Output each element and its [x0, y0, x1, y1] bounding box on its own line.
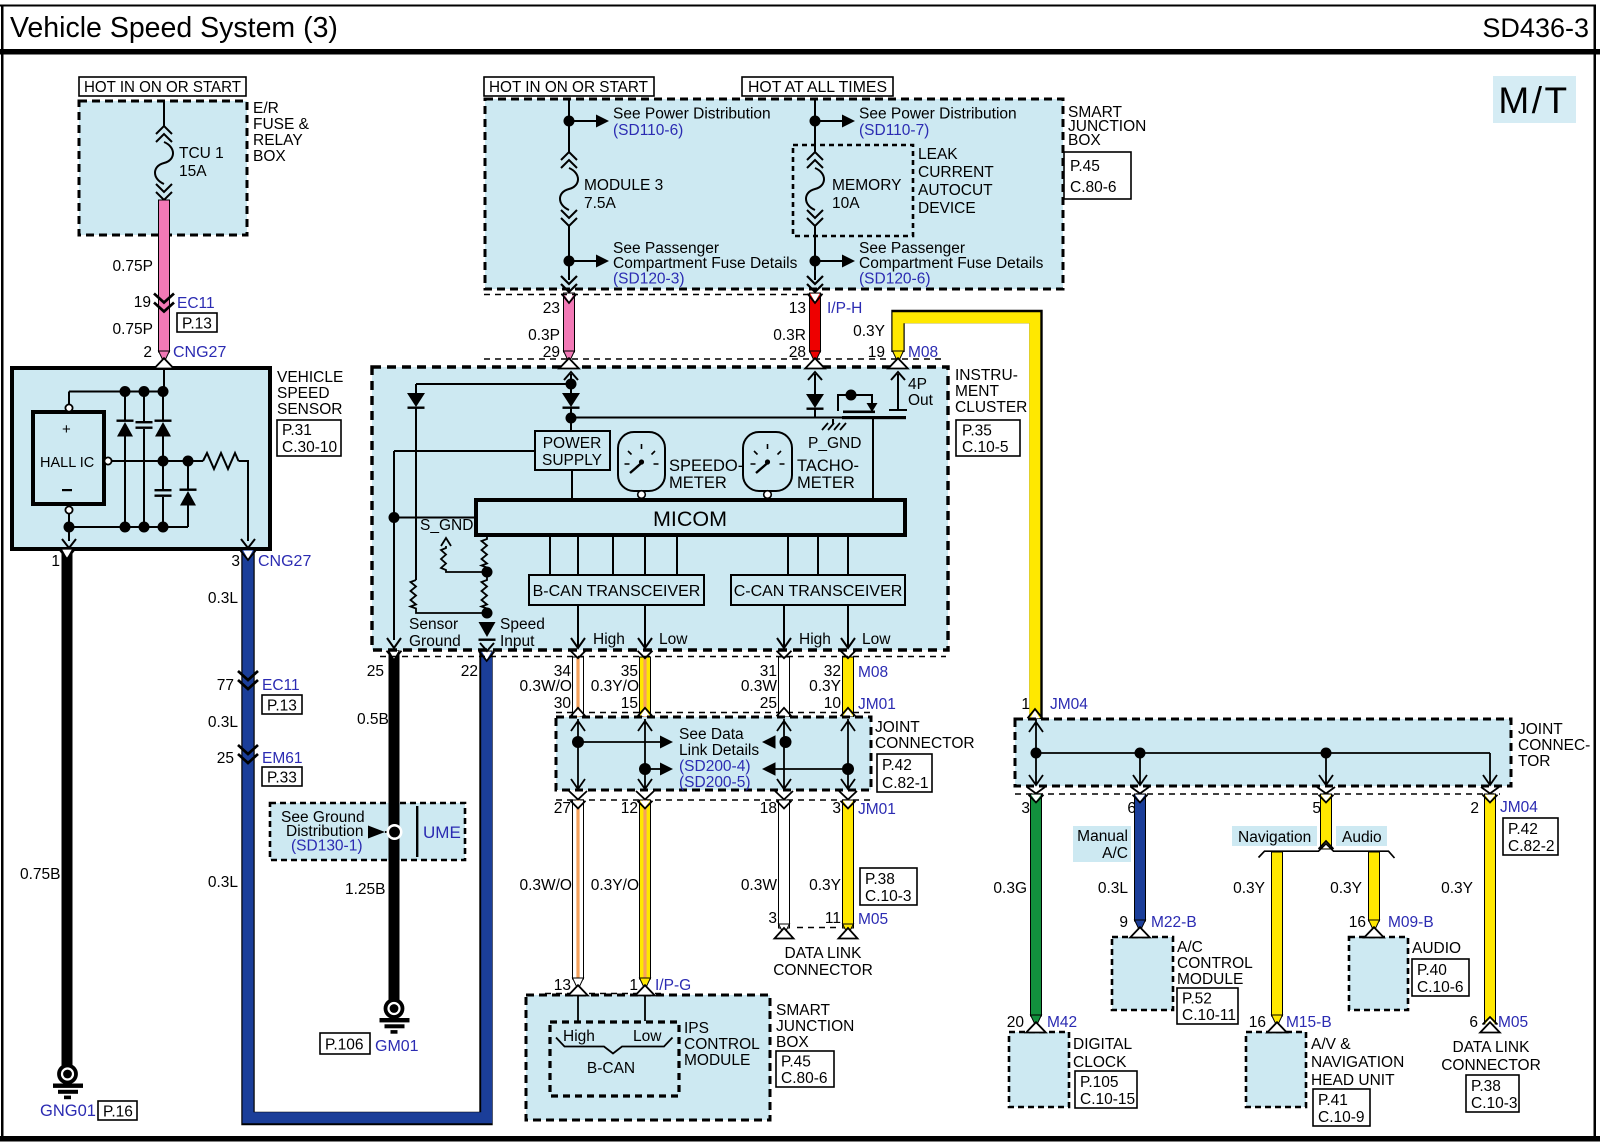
svg-text:0.3G: 0.3G — [993, 880, 1027, 897]
svg-text:18: 18 — [760, 800, 777, 817]
JC internal vertical pin lines — [571, 719, 855, 789]
HOT AT ALL TIMES label — [742, 77, 893, 96]
wire 0.3R SJB to cluster — [810, 293, 821, 352]
speed input resistor 2 — [482, 572, 488, 613]
svg-text:CONNECTOR: CONNECTOR — [1441, 1057, 1541, 1074]
svg-text:10A: 10A — [832, 195, 860, 212]
svg-text:RELAY: RELAY — [253, 132, 303, 149]
svg-text:13: 13 — [789, 300, 806, 317]
svg-text:Compartment Fuse Details: Compartment Fuse Details — [859, 255, 1044, 272]
speed input resistor 1 — [482, 535, 488, 572]
wire 0.3Y/O JC to SJB — [636, 791, 654, 979]
svg-text:SPEED: SPEED — [277, 385, 330, 402]
svg-text:(SD110-6): (SD110-6) — [613, 122, 683, 139]
top rail wire — [69, 391, 164, 393]
Navigation label — [1232, 826, 1317, 846]
svg-text:JM01: JM01 — [858, 696, 896, 713]
svg-text:SENSOR: SENSOR — [277, 401, 342, 418]
svg-text:M05: M05 — [858, 911, 888, 928]
svg-text:1: 1 — [629, 977, 638, 994]
M/T badge — [1493, 76, 1576, 123]
svg-text:INSTRU-: INSTRU- — [955, 367, 1018, 384]
svg-text:P.45: P.45 — [1070, 158, 1100, 175]
svg-text:16: 16 — [1249, 1014, 1266, 1031]
svg-text:9: 9 — [1119, 914, 1128, 931]
svg-text:I/P-G: I/P-G — [655, 977, 691, 994]
svg-text:2: 2 — [143, 344, 152, 361]
svg-text:GM01: GM01 — [375, 1038, 419, 1055]
svg-text:M05: M05 — [1498, 1014, 1528, 1031]
wire node to MICOM left — [394, 517, 476, 519]
svg-text:METER: METER — [669, 474, 727, 492]
connector EC11 pin 77 — [238, 671, 258, 689]
wire into fuse TCU1 — [163, 101, 165, 126]
wire fuse to lower node — [568, 226, 570, 280]
see passenger details arrow (left) — [569, 260, 596, 262]
svg-text:1: 1 — [51, 553, 60, 570]
pin3 arrow — [241, 539, 255, 548]
svg-text:C.10-3: C.10-3 — [865, 888, 912, 905]
node dots top rail — [120, 386, 131, 397]
svg-text:0.3R: 0.3R — [773, 327, 806, 344]
svg-text:E/R: E/R — [253, 100, 279, 117]
svg-text:0.3L: 0.3L — [208, 714, 239, 731]
wire 0.3Y stub pin5 — [1317, 787, 1335, 849]
svg-text:P.35: P.35 — [962, 423, 992, 440]
sensor ground pin arrow — [387, 638, 401, 648]
svg-text:A/C: A/C — [1177, 939, 1203, 956]
svg-text:JM04: JM04 — [1500, 799, 1538, 816]
pin1 arrow — [62, 539, 76, 548]
svg-text:0.3W: 0.3W — [741, 877, 778, 894]
fuse MODULE 3 7.5A — [561, 152, 577, 168]
svg-text:TACHO-: TACHO- — [797, 457, 859, 475]
TOPLEFT — [79, 77, 310, 361]
smart junction box (top) — [485, 99, 1063, 289]
svg-text:See Data: See Data — [679, 726, 744, 743]
svg-text:20: 20 — [1007, 1014, 1025, 1031]
connector row M08 bottom dashed line — [380, 656, 946, 658]
svg-text:NAVIGATION: NAVIGATION — [1311, 1054, 1404, 1071]
diode column3 — [162, 392, 164, 422]
node dots bottom rail — [64, 522, 75, 533]
connector tip pin 19 into cluster — [893, 351, 904, 363]
svg-text:CLOCK: CLOCK — [1073, 1054, 1127, 1071]
svg-text:P.45: P.45 — [781, 1054, 811, 1071]
svg-text:CONNECTOR: CONNECTOR — [773, 962, 873, 979]
svg-text:3: 3 — [1021, 800, 1030, 817]
svg-text:AUDIO: AUDIO — [1412, 940, 1461, 957]
IPS control module box — [550, 1022, 679, 1096]
svg-text:CURRENT: CURRENT — [918, 164, 994, 181]
svg-text:P.42: P.42 — [882, 757, 912, 774]
svg-text:Speed: Speed — [500, 616, 545, 633]
svg-text:TOR: TOR — [1518, 753, 1550, 770]
svg-text:C.10-3: C.10-3 — [1471, 1095, 1518, 1112]
svg-text:CNG27: CNG27 — [258, 553, 311, 570]
svg-text:A/V &: A/V & — [1311, 1036, 1351, 1053]
split brace — [1321, 842, 1331, 849]
wire fuse to lower node — [814, 226, 816, 280]
connector tip pin 16 M09-B into audio — [1369, 920, 1380, 932]
hall + terminal — [68, 392, 70, 405]
connector tip pin 2 CNG27 into sensor — [159, 351, 170, 363]
Audio label — [1336, 826, 1387, 846]
svg-text:0.3Y: 0.3Y — [1233, 880, 1265, 897]
svg-text:11: 11 — [825, 910, 841, 927]
svg-text:(SD110-7): (SD110-7) — [859, 122, 929, 139]
svg-text:CONTROL: CONTROL — [1177, 955, 1253, 972]
page left border — [1, 5, 4, 1140]
svg-text:M22-B: M22-B — [1151, 914, 1197, 931]
joint connector JM04 box — [1015, 719, 1511, 786]
svg-text:4P: 4P — [908, 376, 927, 393]
svg-text:C.10-5: C.10-5 — [962, 439, 1009, 456]
svg-text:See Power Distribution: See Power Distribution — [613, 106, 771, 123]
ground leg vertical — [393, 451, 395, 640]
svg-text:C.10-9: C.10-9 — [1318, 1109, 1365, 1126]
svg-text:(SD200-4): (SD200-4) — [679, 758, 751, 775]
MIDBOTTOM — [367, 651, 975, 1120]
svg-text:P.33: P.33 — [267, 770, 297, 787]
svg-text:(SD120-3): (SD120-3) — [613, 271, 685, 288]
svg-text:SUPPLY: SUPPLY — [542, 452, 602, 469]
S_GND arrow + resistor — [441, 538, 451, 546]
page bottom border — [0, 1136, 1600, 1142]
svg-text:10: 10 — [824, 695, 842, 712]
svg-text:C.10-15: C.10-15 — [1080, 1091, 1135, 1108]
svg-text:DEVICE: DEVICE — [918, 200, 976, 217]
svg-text:M42: M42 — [1047, 1014, 1077, 1031]
connector row M05 dashed fragment — [797, 927, 838, 929]
UME ground distribution box — [270, 803, 465, 860]
svg-text:M09-B: M09-B — [1388, 914, 1434, 931]
svg-text:27: 27 — [554, 800, 571, 817]
svg-text:HEAD UNIT: HEAD UNIT — [1311, 1072, 1395, 1089]
svg-text:0.3L: 0.3L — [208, 590, 239, 607]
svg-text:DATA LINK: DATA LINK — [785, 945, 863, 962]
svg-text:(SD120-6): (SD120-6) — [859, 271, 931, 288]
svg-text:P.13: P.13 — [182, 316, 212, 333]
SJB exit chevron right — [807, 276, 823, 292]
svg-text:Audio: Audio — [1342, 829, 1382, 846]
see power distribution arrow (right) — [815, 120, 842, 122]
svg-text:Ground: Ground — [409, 633, 461, 650]
ground GNG01 — [59, 1066, 76, 1083]
capacitor column2 — [143, 392, 145, 422]
svg-text:High: High — [593, 631, 625, 648]
wire 0.3Y cluster pin19 up and over to JM04 — [898, 317, 1036, 720]
svg-text:(SD200-5): (SD200-5) — [679, 774, 751, 791]
mid rail wire — [112, 460, 204, 462]
svg-text:CNG27: CNG27 — [173, 344, 226, 361]
svg-text:LEAK: LEAK — [918, 146, 958, 163]
node dot — [564, 116, 575, 127]
page right border — [1594, 5, 1597, 1140]
svg-text:HALL IC: HALL IC — [40, 455, 94, 471]
svg-text:19: 19 — [134, 294, 151, 311]
node dot pin29 — [566, 379, 577, 390]
svg-text:0.75B: 0.75B — [20, 866, 61, 883]
4P Out pin19 line — [891, 372, 905, 380]
pin28 entry arrow — [808, 372, 822, 380]
svg-text:1.25B: 1.25B — [345, 881, 386, 898]
svg-text:Sensor: Sensor — [409, 616, 458, 633]
Manual A/C label — [1073, 826, 1131, 862]
title divider bar — [0, 49, 1600, 55]
wire 0.3G to digital clock — [1027, 787, 1045, 1016]
wire to pin3 — [239, 461, 249, 541]
svg-text:C.80-6: C.80-6 — [781, 1070, 828, 1087]
instrument cluster box — [372, 367, 948, 650]
svg-text:(SD130-1): (SD130-1) — [291, 838, 363, 855]
svg-text:P.16: P.16 — [103, 1104, 133, 1121]
wire 0.5B cluster to ground — [389, 650, 400, 1001]
svg-text:SPEEDO-: SPEEDO- — [669, 457, 743, 475]
svg-text:JOINT: JOINT — [875, 719, 920, 736]
svg-text:25: 25 — [217, 750, 234, 767]
capacitor column3 lower — [162, 461, 164, 489]
see power distribution arrow (left) — [569, 120, 596, 122]
svg-text:P.52: P.52 — [1182, 991, 1212, 1008]
see passenger details arrow (right) — [815, 260, 842, 262]
svg-text:High: High — [799, 631, 831, 648]
svg-text:P.38: P.38 — [865, 871, 895, 888]
svg-text:2: 2 — [1470, 800, 1479, 817]
svg-text:0.75P: 0.75P — [112, 321, 153, 338]
connector row I/P-H dashed line — [484, 294, 820, 296]
UME divider — [416, 806, 418, 857]
svg-text:METER: METER — [797, 474, 855, 492]
svg-text:JM04: JM04 — [1050, 696, 1088, 713]
svg-text:Vehicle Speed System (3): Vehicle Speed System (3) — [10, 12, 338, 44]
hall out terminal — [104, 457, 111, 464]
svg-text:CONTROL: CONTROL — [684, 1036, 760, 1053]
wire pink entry to node — [163, 368, 165, 392]
svg-text:Compartment Fuse Details: Compartment Fuse Details — [613, 255, 798, 272]
svg-text:UME: UME — [423, 823, 461, 842]
svg-text:25: 25 — [760, 695, 777, 712]
svg-text:0.3Y: 0.3Y — [1330, 880, 1362, 897]
svg-text:JOINT: JOINT — [1518, 721, 1563, 738]
svg-text:Low: Low — [659, 631, 688, 648]
svg-text:Navigation: Navigation — [1238, 829, 1311, 846]
speedometer gauge — [618, 432, 665, 491]
joint connector JM01 box — [556, 717, 871, 790]
wire 0.3P SJB to cluster — [564, 293, 575, 352]
svg-text:GNG01: GNG01 — [40, 1102, 96, 1120]
hall - terminal — [65, 506, 72, 513]
smart junction box (bottom) — [526, 995, 770, 1120]
wire 0.3Y cluster to JC — [841, 651, 856, 717]
svg-text:M15-B: M15-B — [1286, 1014, 1332, 1031]
svg-text:BOX: BOX — [253, 148, 286, 165]
svg-text:AUTOCUT: AUTOCUT — [918, 182, 993, 199]
svg-text:EC11: EC11 — [262, 677, 300, 694]
svg-text:Input: Input — [500, 633, 535, 650]
wire 0.75P from E/R box to sensor — [159, 200, 170, 352]
node dots mid rail — [158, 456, 169, 467]
svg-text:19: 19 — [868, 344, 885, 361]
svg-text:A/C: A/C — [1102, 845, 1128, 862]
JM04 internal bus — [1029, 719, 1043, 785]
svg-text:0.3Y/O: 0.3Y/O — [591, 877, 639, 894]
svg-text:C.82-2: C.82-2 — [1508, 838, 1555, 855]
svg-text:P_GND: P_GND — [808, 435, 861, 452]
connector tip pin 16 M15-B into head unit — [1272, 1015, 1283, 1027]
diode (left branch) — [415, 384, 417, 393]
svg-text:6: 6 — [1469, 1014, 1478, 1031]
vehicle speed sensor box — [12, 368, 270, 549]
transistor 4P out — [846, 390, 857, 401]
connector row JM01 dashed line — [556, 712, 871, 714]
svg-text:P.40: P.40 — [1417, 962, 1447, 979]
svg-text:5: 5 — [1312, 800, 1321, 817]
svg-text:12: 12 — [621, 800, 638, 817]
connector EC11 pin 19 — [154, 294, 174, 312]
A/V navigation head unit box — [1246, 1032, 1306, 1107]
svg-text:MODULE: MODULE — [1177, 971, 1243, 988]
wire 0.3Y to A/V nav — [1272, 852, 1283, 1016]
svg-text:HOT IN ON OR START: HOT IN ON OR START — [489, 79, 648, 96]
svg-text:MICOM: MICOM — [653, 507, 727, 531]
svg-text:0.3L: 0.3L — [208, 874, 239, 891]
pin29 entry arrow — [564, 372, 578, 380]
power supply box — [535, 431, 610, 470]
svg-text:Link Details: Link Details — [679, 742, 759, 759]
svg-text:0.5B: 0.5B — [357, 711, 389, 728]
svg-text:SMART: SMART — [776, 1002, 831, 1019]
svg-text:P.13: P.13 — [267, 698, 297, 715]
svg-text:DATA LINK: DATA LINK — [1453, 1039, 1531, 1056]
svg-text:0.75P: 0.75P — [112, 258, 153, 275]
MICOM box — [476, 500, 905, 535]
svg-text:P.42: P.42 — [1508, 821, 1538, 838]
svg-text:1: 1 — [1021, 696, 1030, 713]
wire to power supply — [570, 418, 572, 431]
C-CAN transceiver — [731, 575, 905, 605]
svg-text:EC11: EC11 — [177, 295, 215, 312]
connector row I/P-G dashed line — [545, 993, 662, 995]
ground GM01 — [386, 1000, 403, 1017]
MICOM to C-CAN stubs — [788, 535, 848, 575]
wire PS left to ground leg — [394, 450, 535, 452]
node dot — [564, 256, 575, 267]
svg-text:C.30-10: C.30-10 — [282, 439, 338, 456]
connector tip pin 13 I/P-G into SJB — [573, 978, 584, 990]
svg-text:P.106: P.106 — [325, 1037, 364, 1054]
connector EM61 pin 25 — [238, 745, 258, 763]
B-CAN high/low arrows — [571, 605, 585, 648]
P_GND hatch — [832, 419, 834, 424]
digital clock box — [1009, 1032, 1069, 1107]
wires into IPS — [577, 995, 579, 1021]
A/C control module box — [1112, 937, 1173, 1010]
svg-text:25: 25 — [367, 663, 384, 680]
JC bus row 1 — [572, 736, 584, 748]
svg-text:Out: Out — [908, 392, 934, 409]
svg-text:C-CAN TRANSCEIVER: C-CAN TRANSCEIVER — [734, 583, 903, 600]
svg-text:VEHICLE: VEHICLE — [277, 369, 343, 386]
HOT IN ON OR START label (middle) — [484, 77, 654, 96]
connector row below JC dashed line — [556, 799, 871, 801]
svg-text:MEMORY: MEMORY — [832, 177, 901, 194]
connector tip pin 20 M42 into clock — [1031, 1015, 1042, 1027]
svg-text:3: 3 — [768, 910, 777, 927]
node dot — [810, 116, 821, 127]
svg-text:High: High — [563, 1028, 595, 1045]
connector tip pin 1 I/P-G into SJB — [640, 978, 651, 990]
B-CAN transceiver — [529, 575, 704, 605]
SJBTOP — [484, 77, 1146, 719]
svg-text:30: 30 — [554, 695, 572, 712]
svg-text:0.3W: 0.3W — [741, 678, 778, 695]
node dot ground leg — [389, 512, 400, 523]
wire 0.3L sensor to cluster (U shape) — [248, 549, 486, 1119]
svg-text:DIGITAL: DIGITAL — [1073, 1036, 1133, 1053]
svg-text:15A: 15A — [179, 163, 207, 180]
leak current autocut device box — [793, 145, 913, 236]
svg-text:CLUSTER: CLUSTER — [955, 399, 1027, 416]
audio box — [1349, 937, 1408, 1010]
svg-text:Low: Low — [633, 1028, 662, 1045]
svg-text:S_GND: S_GND — [420, 517, 473, 534]
svg-text:BOX: BOX — [1068, 132, 1101, 149]
page top border — [0, 5, 1596, 7]
svg-text:M/T: M/T — [1498, 80, 1569, 121]
svg-text:P.31: P.31 — [282, 422, 312, 439]
svg-text:MODULE: MODULE — [684, 1052, 750, 1069]
wire transistor to MICOM — [872, 419, 874, 500]
svg-text:MODULE 3: MODULE 3 — [584, 177, 663, 194]
diode (supply) — [570, 384, 572, 393]
wire 0.3Y/O cluster to JC — [638, 651, 653, 717]
C-CAN high/low arrows — [777, 605, 791, 648]
svg-text:FUSE &: FUSE & — [253, 116, 310, 133]
wire 0.3W/O JC to SJB — [569, 791, 587, 979]
wire 0.3W/O cluster to JC — [571, 651, 586, 717]
connector tip pin 29 into cluster — [564, 351, 575, 363]
svg-text:C.80-6: C.80-6 — [1070, 179, 1117, 196]
diode (P_GND branch) — [806, 394, 824, 408]
RIGHTSIDE — [993, 696, 1590, 1126]
svg-text:0.3W/O: 0.3W/O — [519, 678, 572, 695]
svg-text:P.105: P.105 — [1080, 1074, 1119, 1091]
node dot — [810, 256, 821, 267]
svg-text:Manual: Manual — [1077, 828, 1128, 845]
connector row M08 dashed line — [484, 358, 946, 360]
svg-text:SD436-3: SD436-3 — [1482, 13, 1589, 43]
connector row below JM04 dashed line — [1015, 793, 1500, 795]
resistor R in sensor — [203, 453, 239, 469]
svg-text:CONNECTOR: CONNECTOR — [875, 735, 975, 752]
svg-text:IPS: IPS — [684, 1020, 709, 1037]
B-CAN brace — [556, 1038, 673, 1054]
fuse TCU 1 15A — [156, 126, 172, 142]
wire 0.3L to A/C control — [1131, 787, 1149, 921]
svg-text:0.3L: 0.3L — [1098, 880, 1129, 897]
svg-text:EM61: EM61 — [262, 750, 303, 767]
svg-text:22: 22 — [461, 663, 478, 680]
CLUSTER — [372, 367, 1027, 651]
svg-text:23: 23 — [543, 300, 560, 317]
svg-text:JUNCTION: JUNCTION — [776, 1018, 854, 1035]
MICOM to B-CAN stubs — [550, 535, 677, 575]
svg-text:See Power Distribution: See Power Distribution — [859, 106, 1017, 123]
svg-text:3: 3 — [231, 553, 240, 570]
node dot below diode — [566, 413, 577, 424]
SJB exit chevron left — [561, 276, 577, 292]
